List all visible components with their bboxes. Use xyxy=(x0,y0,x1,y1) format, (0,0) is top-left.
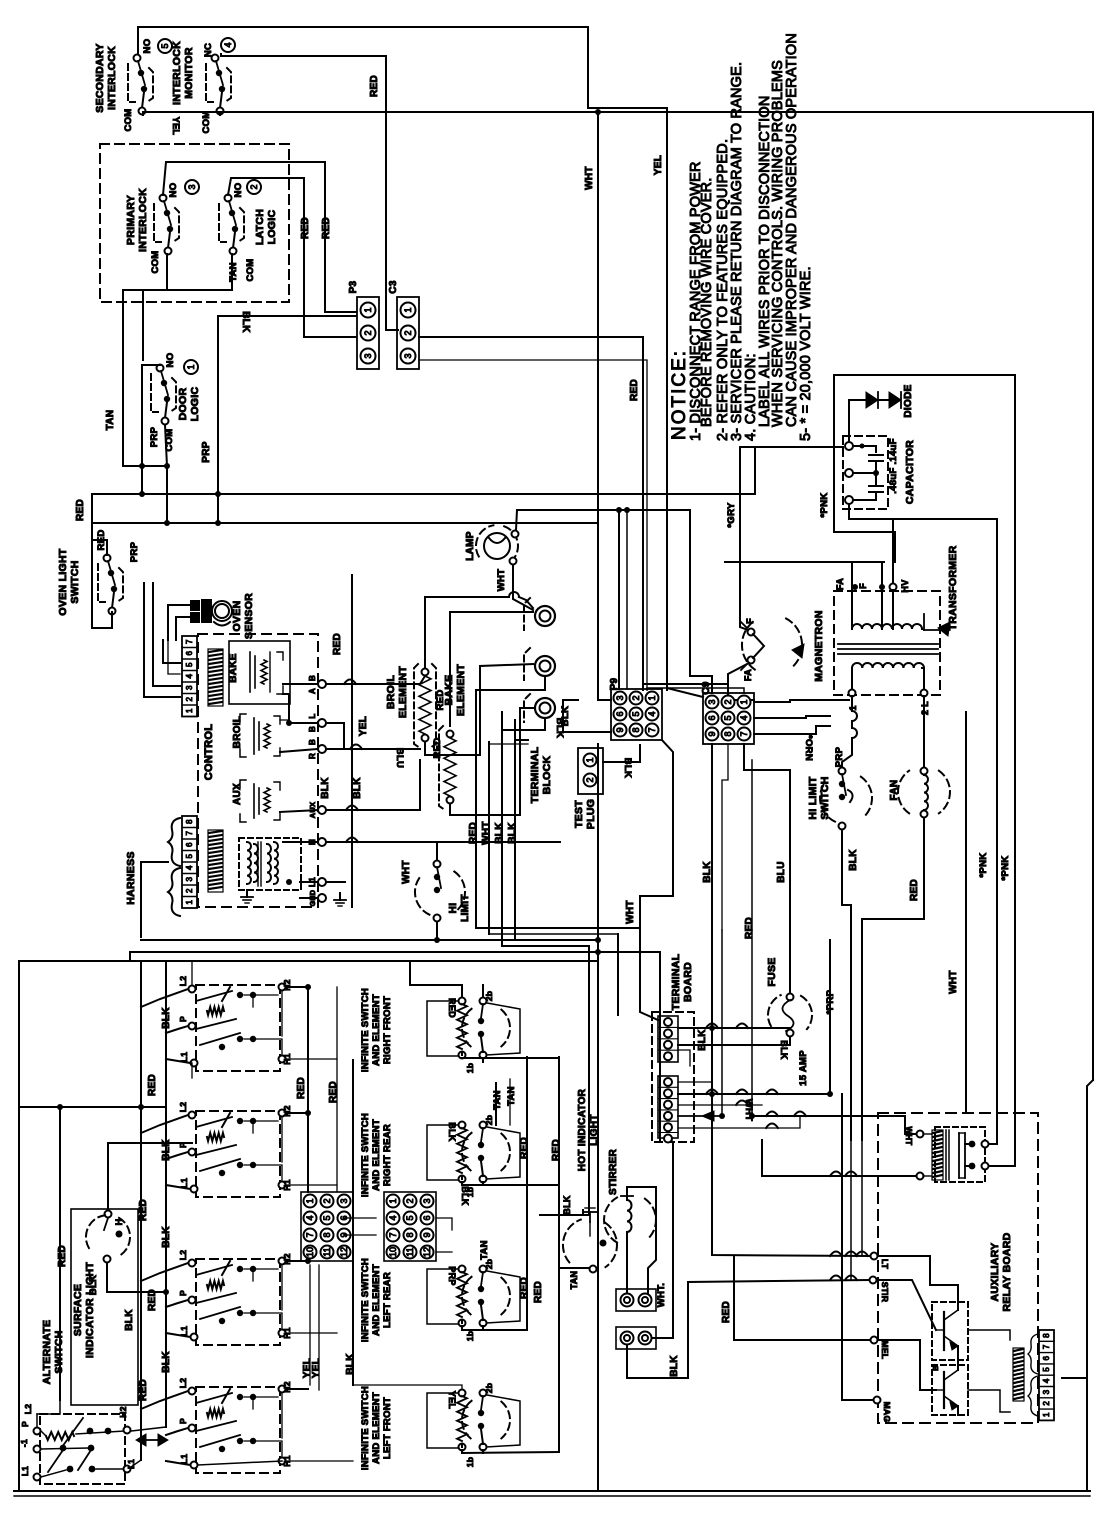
wire bus lower xyxy=(92,522,598,524)
svg-text:BLK: BLK xyxy=(352,777,363,799)
svg-text:8: 8 xyxy=(723,731,733,736)
latch logic switch S4 xyxy=(225,195,232,202)
wire element connections xyxy=(425,597,509,668)
svg-text:YEL: YEL xyxy=(653,155,664,175)
svg-text:FA: FA xyxy=(743,669,753,681)
svg-text:BLK: BLK xyxy=(240,311,251,333)
svg-text:LATCH: LATCH xyxy=(254,209,266,245)
wire mid bus drops xyxy=(129,952,131,961)
svg-text:LEFT FRONT: LEFT FRONT xyxy=(382,1397,393,1459)
svg-text:HV: HV xyxy=(900,579,910,592)
svg-text:8: 8 xyxy=(631,727,641,732)
svg-text:5: 5 xyxy=(185,662,194,667)
surface unit switch right rear xyxy=(196,1111,280,1197)
wire grids to elements xyxy=(410,1125,462,1192)
svg-text:RED: RED xyxy=(629,379,640,401)
svg-text:CAPACITOR: CAPACITOR xyxy=(904,440,916,504)
surface unit switch right front xyxy=(196,985,280,1071)
svg-text:H2: H2 xyxy=(282,1105,292,1116)
svg-text:L2: L2 xyxy=(178,1250,188,1261)
wire BLK to P3 xyxy=(218,315,356,317)
svg-text:L2: L2 xyxy=(178,1102,188,1113)
svg-text:F: F xyxy=(858,583,868,589)
svg-text:RIGHT FRONT: RIGHT FRONT xyxy=(382,996,393,1064)
wire terminal board taps A xyxy=(678,1027,790,1029)
svg-text:ELEMENT: ELEMENT xyxy=(397,666,409,719)
svg-text:1: 1 xyxy=(186,364,196,369)
harness connector strip 1-8 xyxy=(182,816,197,908)
svg-text:AND ELEMENT: AND ELEMENT xyxy=(371,1264,382,1336)
svg-text:8: 8 xyxy=(405,1232,415,1237)
svg-text:3: 3 xyxy=(185,876,194,881)
wire surface right verticals xyxy=(307,987,309,1192)
svg-text:FA: FA xyxy=(835,578,845,590)
wire aux rows xyxy=(280,810,318,812)
svg-text:6: 6 xyxy=(1042,1355,1051,1360)
svg-text:2b: 2b xyxy=(484,991,494,1002)
svg-text:RED: RED xyxy=(332,633,343,655)
wire RED from NC to C3 xyxy=(221,54,398,330)
svg-text:11: 11 xyxy=(322,1247,332,1256)
svg-text:WHT: WHT xyxy=(948,970,959,994)
harness brace xyxy=(168,818,180,866)
svg-text:COM: COM xyxy=(123,108,134,131)
svg-text:BLK: BLK xyxy=(507,822,518,844)
svg-text:COM: COM xyxy=(150,250,161,273)
wire primary NO to P3 xyxy=(163,162,356,312)
svg-text:BLK: BLK xyxy=(161,1226,172,1248)
wire C9 to ORN taps xyxy=(754,700,849,702)
svg-text:1: 1 xyxy=(185,708,194,713)
svg-text:PRIMARY: PRIMARY xyxy=(125,195,137,245)
control connector strip 7-1 xyxy=(182,636,197,717)
svg-text:PRP: PRP xyxy=(834,746,845,767)
svg-text:*PNK: *PNK xyxy=(978,853,989,878)
svg-text:B: B xyxy=(308,675,317,681)
svg-text:LIGHT: LIGHT xyxy=(589,1114,600,1146)
svg-text:8: 8 xyxy=(1042,1333,1051,1338)
svg-text:4: 4 xyxy=(739,715,749,720)
svg-text:BLK: BLK xyxy=(702,861,713,883)
aux board left nodes xyxy=(871,1253,878,1260)
wire alternate link xyxy=(59,1107,61,1400)
grid interconnect wires xyxy=(344,1217,376,1219)
svg-text:TAN: TAN xyxy=(228,262,239,282)
magnetron enclosure xyxy=(725,561,884,563)
wire feeds into control connector xyxy=(144,583,180,697)
hi limit switch left xyxy=(434,861,441,868)
svg-text:NC: NC xyxy=(203,43,214,57)
svg-text:4: 4 xyxy=(223,42,233,47)
wire WHT right xyxy=(965,712,967,1113)
svg-text:PRP: PRP xyxy=(129,541,140,562)
svg-text:MEL: MEL xyxy=(880,1341,890,1360)
svg-text:H2: H2 xyxy=(282,979,292,990)
svg-text:4: 4 xyxy=(185,673,194,678)
svg-text:INFINITE SWITCH: INFINITE SWITCH xyxy=(360,1386,371,1470)
svg-text:OVEN: OVEN xyxy=(231,601,243,632)
wire RED WHT BLK BLK verticals xyxy=(475,730,477,928)
connector grid C (right) xyxy=(384,1192,436,1261)
wire WHT vertical xyxy=(598,112,611,700)
svg-text:AND ELEMENT: AND ELEMENT xyxy=(371,1392,382,1464)
svg-text:RED: RED xyxy=(138,1199,149,1221)
svg-text:L2: L2 xyxy=(23,1404,33,1415)
svg-text:AND ELEMENT: AND ELEMENT xyxy=(371,1119,382,1191)
harness hatch xyxy=(208,830,223,892)
wire mid bus bundle xyxy=(476,927,640,929)
svg-text:4: 4 xyxy=(305,1215,315,1220)
svg-text:BEFORE REMOVING WIRE COVER.: BEFORE REMOVING WIRE COVER. xyxy=(699,177,715,427)
svg-text:RED: RED xyxy=(138,1379,149,1401)
svg-text:P: P xyxy=(20,1421,30,1427)
svg-text:RED: RED xyxy=(909,879,920,901)
svg-text:WHT: WHT xyxy=(625,900,636,924)
svg-text:BLK: BLK xyxy=(447,1122,457,1142)
svg-text:WHT.: WHT. xyxy=(656,1283,667,1307)
svg-text:2: 2 xyxy=(185,696,194,701)
svg-text:10: 10 xyxy=(388,1247,398,1257)
svg-text:STIRRER: STIRRER xyxy=(608,1149,619,1195)
aux connector strip xyxy=(1039,1330,1054,1420)
svg-text:2: 2 xyxy=(405,1198,415,1203)
svg-text:MONITOR: MONITOR xyxy=(183,47,195,99)
svg-text:INTERLOCK: INTERLOCK xyxy=(171,41,183,105)
svg-text:TERMINAL: TERMINAL xyxy=(529,746,541,803)
svg-text:YEL: YEL xyxy=(447,1391,457,1410)
bake relay K1 xyxy=(229,641,290,704)
infinite element left rear xyxy=(459,1266,466,1273)
lower section border xyxy=(19,961,598,1491)
svg-text:BLOCK: BLOCK xyxy=(541,755,553,794)
svg-text:-1: -1 xyxy=(19,1439,29,1447)
svg-text:RED: RED xyxy=(744,917,755,939)
svg-text:4: 4 xyxy=(388,1215,398,1220)
wire C3 to RED pair xyxy=(419,337,643,690)
svg-text:TAN: TAN xyxy=(506,1086,517,1106)
svg-text:11: 11 xyxy=(405,1247,415,1256)
svg-text:9: 9 xyxy=(707,731,717,736)
svg-text:SECONDARY: SECONDARY xyxy=(94,43,106,112)
svg-text:15 AMP: 15 AMP xyxy=(798,1050,809,1086)
svg-text:MAGNETRON: MAGNETRON xyxy=(813,610,825,682)
svg-text:SWITCH: SWITCH xyxy=(69,560,81,603)
svg-text:H2: H2 xyxy=(282,1381,292,1392)
svg-text:5: 5 xyxy=(322,1215,332,1220)
svg-text:2: 2 xyxy=(322,1198,332,1203)
svg-text:LIMIT: LIMIT xyxy=(460,894,471,922)
svg-text:PRP: PRP xyxy=(201,441,212,462)
svg-text:RED: RED xyxy=(468,822,479,844)
terminal board strip A xyxy=(658,1016,678,1062)
svg-text:RED: RED xyxy=(147,1074,158,1096)
svg-text:HARNESS: HARNESS xyxy=(125,851,137,904)
svg-text:TAN: TAN xyxy=(569,1271,579,1290)
primary interlock dashed box xyxy=(100,144,289,302)
wire terminal block taps xyxy=(476,676,545,730)
svg-text:5: 5 xyxy=(405,1215,415,1220)
svg-text:8: 8 xyxy=(185,819,194,824)
svg-text:2b: 2b xyxy=(484,1383,494,1394)
svg-text:COM: COM xyxy=(201,110,212,133)
wire mid drops to terminal board xyxy=(711,930,713,1094)
svg-text:L1: L1 xyxy=(21,1466,30,1476)
svg-text:7: 7 xyxy=(388,1232,398,1237)
svg-text:BOARD: BOARD xyxy=(682,962,694,1002)
svg-text:1: 1 xyxy=(739,699,749,704)
svg-text:BLK: BLK xyxy=(161,1351,172,1373)
wire latch COM down xyxy=(123,254,232,360)
wire primary COM down xyxy=(143,254,167,360)
svg-text:6: 6 xyxy=(422,1215,432,1220)
svg-text:2b: 2b xyxy=(484,1115,494,1126)
svg-text:LOGIC: LOGIC xyxy=(266,210,278,245)
svg-text:5: 5 xyxy=(1042,1367,1051,1372)
svg-text:*PNK: *PNK xyxy=(1000,856,1011,881)
svg-text:*PNK: *PNK xyxy=(819,493,830,518)
svg-text:L2: L2 xyxy=(178,1378,188,1389)
wire P9 top feeds xyxy=(618,510,620,689)
svg-text:WHT: WHT xyxy=(496,569,507,592)
wire bus RED upper xyxy=(92,447,843,523)
door logic switch S5 xyxy=(157,365,164,372)
infinite element left front xyxy=(459,1390,466,1397)
svg-text:7: 7 xyxy=(647,727,657,732)
svg-text:FUSE: FUSE xyxy=(766,957,778,986)
svg-text:PRP: PRP xyxy=(447,1266,457,1285)
svg-text:BLU: BLU xyxy=(394,748,405,768)
control connector hatch xyxy=(208,649,223,706)
svg-text:BLK: BLK xyxy=(697,1029,708,1051)
svg-text:NOTICE:: NOTICE: xyxy=(669,349,690,440)
svg-text:3: 3 xyxy=(707,699,717,704)
svg-text:RED: RED xyxy=(519,1277,530,1299)
svg-text:SENSOR: SENSOR xyxy=(243,593,255,639)
svg-text:5: 5 xyxy=(185,853,194,858)
svg-text:HOT INDICATOR: HOT INDICATOR xyxy=(577,1088,588,1171)
svg-text:3: 3 xyxy=(339,1198,349,1203)
svg-text:RED: RED xyxy=(551,1139,562,1161)
svg-text:*ORN: *ORN xyxy=(803,735,814,761)
svg-text:L2: L2 xyxy=(178,976,188,987)
svg-text:H2: H2 xyxy=(282,1253,292,1264)
svg-text:WHT: WHT xyxy=(401,860,412,884)
svg-text:DOOR: DOOR xyxy=(177,388,189,421)
svg-text:1: 1 xyxy=(1042,1412,1051,1417)
svg-text:HI LIMIT: HI LIMIT xyxy=(807,776,819,820)
aux transformer xyxy=(935,1127,985,1182)
svg-text:9: 9 xyxy=(615,727,625,732)
svg-text:TAN: TAN xyxy=(479,1240,490,1260)
svg-text:RED: RED xyxy=(519,1137,530,1159)
HV enclosure box xyxy=(834,375,1015,1166)
svg-text:2: 2 xyxy=(403,330,413,335)
svg-text:NO: NO xyxy=(142,39,153,54)
svg-text:1b: 1b xyxy=(465,1457,475,1468)
svg-text:.48uF .14uF: .48uF .14uF xyxy=(888,438,899,494)
svg-text:YEL: YEL xyxy=(171,117,181,136)
svg-text:10: 10 xyxy=(305,1247,315,1257)
svg-text:H2: H2 xyxy=(118,1406,128,1417)
terminal board dashed box xyxy=(652,1012,694,1142)
svg-text:NO: NO xyxy=(165,353,176,368)
svg-text:9: 9 xyxy=(422,1232,432,1237)
aux relay K3 xyxy=(240,780,246,788)
infinite element wiring xyxy=(436,1000,462,1002)
svg-text:B: B xyxy=(308,726,317,732)
svg-text:INTERLOCK: INTERLOCK xyxy=(106,46,118,110)
svg-text:RED: RED xyxy=(321,217,332,239)
svg-text:3: 3 xyxy=(363,353,373,358)
svg-text:*GRY: *GRY xyxy=(726,502,737,527)
svg-text:YEL: YEL xyxy=(311,1358,322,1378)
svg-text:2: 2 xyxy=(185,888,194,893)
control transformer xyxy=(239,838,301,890)
svg-text:3: 3 xyxy=(403,353,413,358)
wire C9 bottom drops xyxy=(711,744,713,930)
svg-text:12: 12 xyxy=(339,1247,349,1257)
svg-text:BLK: BLK xyxy=(124,1309,135,1331)
test plug xyxy=(578,748,603,794)
control node terminals xyxy=(318,680,326,688)
svg-text:BLK: BLK xyxy=(622,758,633,778)
svg-text:BLK: BLK xyxy=(345,1353,356,1375)
svg-text:RED: RED xyxy=(721,1301,732,1323)
auxiliary relay board dashed box xyxy=(878,1113,1038,1423)
svg-text:P: P xyxy=(178,1290,188,1296)
svg-text:5: 5 xyxy=(160,43,170,48)
svg-text:4: 4 xyxy=(647,711,657,716)
svg-text:BLK: BLK xyxy=(494,822,505,844)
svg-text:ELEMENT: ELEMENT xyxy=(455,664,467,717)
svg-text:5: 5 xyxy=(723,715,733,720)
svg-text:C3: C3 xyxy=(388,280,399,294)
svg-text:SWITCH: SWITCH xyxy=(819,776,831,819)
svg-text:7: 7 xyxy=(185,639,194,644)
svg-text:AUXILIARY: AUXILIARY xyxy=(989,1243,1001,1302)
svg-text:3: 3 xyxy=(1042,1389,1051,1394)
svg-text:P: P xyxy=(178,1418,188,1424)
wire bake row xyxy=(283,683,318,685)
svg-text:3: 3 xyxy=(615,695,625,700)
terminal board strip B xyxy=(658,1076,678,1138)
svg-text:5: 5 xyxy=(631,711,641,716)
wire transformer drops xyxy=(851,696,853,708)
magnetron xyxy=(786,619,802,669)
infinite element right front xyxy=(459,998,466,1005)
svg-text:BROIL: BROIL xyxy=(232,716,243,749)
svg-text:INFINITE SWITCH: INFINITE SWITCH xyxy=(360,1113,371,1197)
alternate switch xyxy=(40,1414,125,1484)
wire PNK capacitor drop xyxy=(849,504,997,1144)
svg-text:2: 2 xyxy=(249,184,259,189)
svg-text:RED: RED xyxy=(57,1245,68,1267)
svg-text:3: 3 xyxy=(422,1198,432,1203)
svg-text:1: 1 xyxy=(305,1198,315,1203)
svg-text:ALTERNATE: ALTERNATE xyxy=(41,1320,53,1385)
svg-text:RED: RED xyxy=(296,1077,307,1099)
infinite element right rear xyxy=(459,1122,466,1129)
svg-text:7: 7 xyxy=(185,830,194,835)
capacitor C1 xyxy=(845,442,853,450)
svg-text:3: 3 xyxy=(187,184,197,189)
svg-text:2: 2 xyxy=(363,330,373,335)
svg-text:AND ELEMENT: AND ELEMENT xyxy=(371,994,382,1066)
svg-text:BLK: BLK xyxy=(562,1195,572,1215)
svg-text:BROIL: BROIL xyxy=(385,675,397,709)
svg-text:3: 3 xyxy=(185,685,194,690)
svg-text:B: B xyxy=(308,739,317,745)
svg-text:H: H xyxy=(114,1219,124,1226)
svg-text:BLK: BLK xyxy=(320,777,331,799)
svg-text:AUX: AUX xyxy=(232,783,243,805)
svg-text:1: 1 xyxy=(388,1198,398,1203)
svg-text:6: 6 xyxy=(707,715,717,720)
svg-text:A: A xyxy=(308,688,317,694)
svg-text:6: 6 xyxy=(185,650,194,655)
wire aux relay links xyxy=(877,1280,936,1330)
svg-text:NO: NO xyxy=(233,183,244,198)
svg-text:TEST: TEST xyxy=(573,800,585,828)
svg-text:5- * = 20,000 VOLT WIRE.: 5- * = 20,000 VOLT WIRE. xyxy=(798,266,814,441)
svg-text:1b: 1b xyxy=(465,1331,475,1342)
svg-text:PRP: PRP xyxy=(149,426,160,447)
svg-text:BLK: BLK xyxy=(554,718,565,738)
wire top bus xyxy=(138,27,667,690)
stirrer terminal pair 1 xyxy=(616,1289,656,1311)
svg-text:WHT: WHT xyxy=(584,166,595,190)
svg-text:F: F xyxy=(745,618,755,624)
wire L1 GND rows xyxy=(300,881,318,883)
wire yel links xyxy=(309,1265,311,1385)
svg-text:WHT: WHT xyxy=(481,821,492,845)
svg-text:COM: COM xyxy=(245,258,256,281)
aux relay Q2 xyxy=(932,1365,968,1415)
svg-text:4: 4 xyxy=(185,865,194,870)
svg-text:INFINITE SWITCH: INFINITE SWITCH xyxy=(360,1258,371,1342)
oven sensor xyxy=(191,601,199,610)
svg-text:CONTROL: CONTROL xyxy=(203,724,215,780)
svg-text:2: 2 xyxy=(723,699,733,704)
surface unit switch left front xyxy=(196,1387,280,1473)
svg-text:TRANSFORMER: TRANSFORMER xyxy=(947,545,959,630)
svg-text:P3: P3 xyxy=(348,280,359,293)
wire red vertical to elements xyxy=(690,510,712,693)
wire GRY drop xyxy=(740,447,843,562)
wire surface top entries xyxy=(191,961,193,985)
svg-text:TAN: TAN xyxy=(105,410,116,431)
svg-text:INFINITE SWITCH: INFINITE SWITCH xyxy=(360,988,371,1072)
svg-text:RED: RED xyxy=(300,217,311,239)
svg-text:RED: RED xyxy=(533,1281,544,1303)
svg-text:BLK: BLK xyxy=(669,1355,680,1377)
svg-text:DIODE: DIODE xyxy=(903,384,914,417)
stirrer terminal pair 2 xyxy=(616,1327,656,1349)
svg-text:INTERLOCK: INTERLOCK xyxy=(137,188,149,252)
wire H row xyxy=(283,841,318,843)
svg-text:LT: LT xyxy=(880,1259,890,1270)
svg-text:BLK: BLK xyxy=(161,1007,172,1029)
svg-text:1: 1 xyxy=(363,307,373,312)
svg-text:RED: RED xyxy=(447,998,457,1018)
aux relay Q1 xyxy=(932,1302,968,1360)
wire aux transformer feeds xyxy=(762,1175,916,1177)
svg-text:R: R xyxy=(308,753,317,759)
wire aux node feeds xyxy=(712,1094,870,1256)
svg-text:LEFT REAR: LEFT REAR xyxy=(382,1272,393,1328)
svg-text:7: 7 xyxy=(305,1232,315,1237)
svg-text:PLUG: PLUG xyxy=(585,799,597,829)
